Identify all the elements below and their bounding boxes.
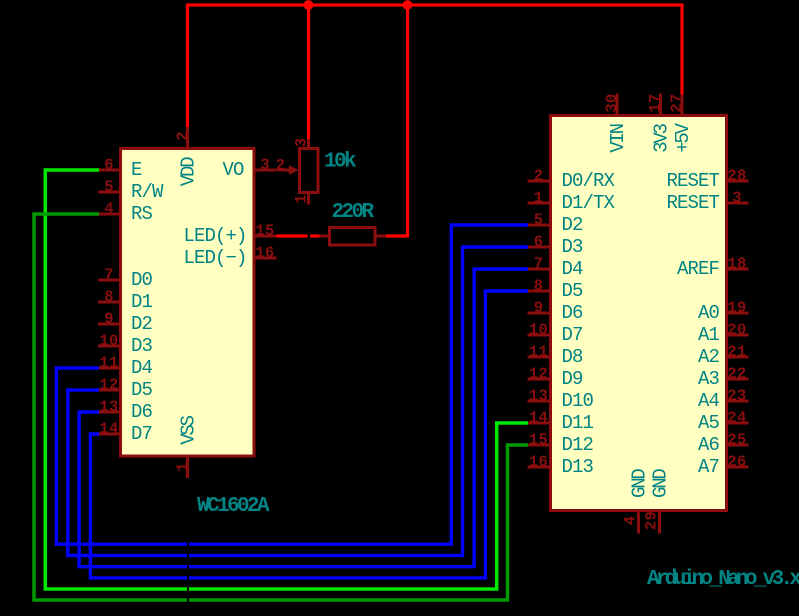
svg-text:D7: D7	[562, 324, 583, 346]
svg-text:1: 1	[293, 194, 311, 204]
svg-text:4: 4	[622, 516, 640, 526]
svg-text:A7: A7	[698, 456, 719, 478]
svg-text:6: 6	[104, 156, 114, 174]
LCD pin 13 D6	[98, 411, 122, 414]
svg-text:15: 15	[529, 431, 548, 449]
svg-text:220R: 220R	[331, 201, 374, 224]
svg-text:Arduino_Nano_v3.x: Arduino_Nano_v3.x	[647, 568, 799, 591]
svg-text:D6: D6	[562, 302, 584, 324]
svg-text:LED(+): LED(+)	[183, 225, 246, 247]
Arduino pin 17 3V3	[659, 94, 662, 117]
wire net LCD_D7 to Arduino_D5 (right run)	[189, 291, 528, 578]
Arduino pin 24 A5	[726, 422, 749, 425]
svg-text:D4: D4	[562, 258, 584, 280]
svg-text:22: 22	[727, 365, 746, 383]
svg-text:14: 14	[529, 409, 548, 427]
Arduino pin 8 D5	[528, 290, 552, 293]
wire segment after gap	[310, 234, 320, 237]
svg-text:4: 4	[104, 200, 114, 218]
svg-text:10: 10	[99, 332, 118, 350]
Arduino Nano U2 body	[551, 116, 727, 511]
svg-text:18: 18	[727, 255, 746, 273]
svg-text:VO: VO	[222, 159, 244, 181]
LCD pin 16 LED(−)	[253, 257, 277, 260]
Arduino pin 28 RESET	[726, 180, 749, 183]
wire LED(+) to R1 left lead	[277, 234, 308, 237]
svg-text:D13: D13	[562, 456, 594, 478]
svg-text:23: 23	[727, 387, 746, 405]
svg-text:D3: D3	[131, 335, 153, 357]
wire net LCD_D7 to Arduino_D5 (left run)	[90, 434, 186, 578]
svg-text:D2: D2	[562, 214, 584, 236]
svg-text:VIN: VIN	[607, 124, 629, 152]
Arduino pin 9 D6	[528, 312, 552, 315]
Arduino pin 26 A7	[726, 466, 749, 469]
svg-text:D0: D0	[131, 269, 153, 291]
svg-text:D12: D12	[562, 434, 594, 456]
svg-text:3: 3	[732, 189, 742, 207]
svg-text:24: 24	[727, 409, 746, 427]
svg-text:D3: D3	[562, 236, 584, 258]
R1 lead right	[374, 235, 385, 238]
Arduino pin 3 RESET	[726, 202, 749, 205]
wire +5V drop to R1 right lead	[386, 5, 408, 236]
svg-text:A3: A3	[698, 368, 720, 390]
LCD pin 9 D2	[98, 323, 122, 326]
R1 lead left	[319, 235, 330, 238]
Arduino pin 5 D2	[528, 224, 552, 227]
Arduino pin 20 A1	[726, 334, 749, 337]
svg-text:2: 2	[174, 131, 192, 141]
svg-text:11: 11	[99, 354, 118, 372]
svg-text:16: 16	[529, 453, 548, 471]
svg-text:29: 29	[643, 511, 661, 530]
Arduino pin 22 A3	[726, 378, 749, 381]
Arduino pin 11 D8	[528, 356, 552, 359]
LCD pin 11 D4	[98, 367, 122, 370]
svg-text:1: 1	[534, 189, 544, 207]
svg-text:3: 3	[260, 156, 270, 174]
junction at RV1 branch	[304, 0, 314, 10]
svg-text:3V3: 3V3	[651, 123, 673, 152]
Arduino pin 13 D10	[528, 400, 552, 403]
wire net LCD_D5 to Arduino_D3 (left run)	[68, 390, 187, 556]
wire net LCD_RS to Arduino_D12 (left run)	[34, 214, 187, 600]
Arduino pin 18 AREF	[726, 268, 749, 271]
wire +5V drop to RV1 pin 3	[307, 5, 310, 139]
svg-text:GND: GND	[650, 469, 672, 498]
svg-text:26: 26	[727, 453, 746, 471]
Arduino pin 12 D9	[528, 378, 552, 381]
RV1 pin 3 (top)	[307, 137, 310, 149]
Arduino pin 27 +5V	[681, 94, 684, 117]
LCD pin 8 D1	[98, 301, 122, 304]
svg-text:RESET: RESET	[666, 170, 719, 192]
LCD pin 5 R/W	[98, 191, 122, 194]
LCD pin 4 RS	[98, 213, 122, 216]
Arduino pin 19 A0	[726, 312, 749, 315]
svg-text:6: 6	[534, 233, 544, 251]
svg-text:7: 7	[104, 266, 114, 284]
wire net LCD_D4 to Arduino_D2 (left run)	[56, 368, 187, 544]
svg-text:28: 28	[727, 167, 746, 185]
svg-text:20: 20	[727, 321, 746, 339]
svg-text:A4: A4	[698, 390, 720, 412]
wire net LCD_D6 to Arduino_D4 (left run)	[79, 412, 187, 567]
svg-text:12: 12	[99, 376, 118, 394]
svg-text:30: 30	[603, 93, 621, 112]
svg-text:D8: D8	[562, 346, 584, 368]
svg-text:8: 8	[104, 288, 114, 306]
Arduino pin 2 D0/RX	[528, 180, 552, 183]
LCD pin 7 D0	[98, 279, 122, 282]
svg-text:D4: D4	[131, 357, 153, 379]
svg-text:A1: A1	[698, 324, 720, 346]
LCD pin 10 D3	[98, 345, 122, 348]
LCD pin 6 E	[98, 169, 122, 172]
svg-text:10: 10	[529, 321, 548, 339]
svg-text:8: 8	[534, 277, 544, 295]
svg-text:7: 7	[534, 255, 544, 273]
svg-text:A0: A0	[698, 302, 720, 324]
svg-text:D5: D5	[562, 280, 584, 302]
svg-text:A6: A6	[698, 434, 720, 456]
Arduino pin 25 A6	[726, 444, 749, 447]
LCD pin 14 D7	[98, 433, 122, 436]
LCD pin 2 VDD	[186, 126, 189, 149]
svg-text:12: 12	[529, 365, 548, 383]
resistor R1 body	[330, 228, 376, 246]
svg-text:11: 11	[529, 343, 548, 361]
svg-text:D9: D9	[562, 368, 584, 390]
svg-text:5: 5	[104, 178, 114, 196]
svg-text:WC1602A: WC1602A	[197, 495, 270, 518]
potentiometer RV1 body	[300, 149, 319, 193]
svg-text:D7: D7	[131, 423, 152, 445]
svg-text:RS: RS	[131, 203, 153, 225]
Arduino pin 6 D3	[528, 246, 552, 249]
svg-text:3: 3	[293, 138, 311, 148]
svg-text:17: 17	[647, 93, 665, 112]
svg-text:VSS: VSS	[178, 415, 200, 444]
LCD pin 12 D5	[98, 389, 122, 392]
svg-text:D11: D11	[562, 412, 594, 434]
LCD pin 1 VSS	[186, 455, 189, 478]
Arduino pin 7 D4	[528, 268, 552, 271]
svg-text:16: 16	[255, 244, 274, 262]
svg-text:21: 21	[727, 343, 746, 361]
svg-text:D5: D5	[131, 379, 153, 401]
svg-text:A5: A5	[698, 412, 720, 434]
Arduino pin 16 D13	[528, 466, 552, 469]
Arduino pin 10 D7	[528, 334, 552, 337]
wire net LCD_E to Arduino_D11 (left run)	[45, 170, 187, 589]
svg-text:13: 13	[529, 387, 548, 405]
svg-text:19: 19	[727, 299, 746, 317]
svg-text:D6: D6	[131, 401, 153, 423]
wire net LCD_D5 to Arduino_D3 (right run)	[189, 247, 528, 556]
svg-text:D1/TX: D1/TX	[562, 192, 616, 214]
svg-text:15: 15	[255, 222, 274, 240]
LCD pin 3 VO	[253, 169, 277, 172]
wire net LCD_E to Arduino_D11 (right run)	[189, 423, 528, 589]
svg-text:AREF: AREF	[677, 258, 720, 280]
svg-text:5: 5	[534, 211, 544, 229]
svg-text:E: E	[131, 159, 142, 181]
svg-text:10k: 10k	[324, 151, 356, 174]
Arduino pin 23 A4	[726, 400, 749, 403]
Arduino pin 1 D1/TX	[528, 202, 552, 205]
svg-text:9: 9	[104, 310, 114, 328]
Arduino pin 15 D12	[528, 444, 552, 447]
svg-text:1: 1	[174, 462, 192, 472]
Arduino pin 14 D11	[528, 422, 552, 425]
Arduino pin 4 GND	[637, 510, 640, 534]
wire net LCD_D4 to Arduino_D2 (right run)	[189, 225, 528, 544]
LCD pin 15 LED(+)	[253, 235, 277, 238]
svg-text:R/W: R/W	[131, 181, 164, 203]
svg-text:A2: A2	[698, 346, 720, 368]
svg-text:25: 25	[727, 431, 746, 449]
Arduino pin 29 GND	[658, 510, 661, 534]
svg-text:D2: D2	[131, 313, 153, 335]
Arduino pin 21 A2	[726, 356, 749, 359]
svg-text:13: 13	[99, 398, 118, 416]
svg-text:2: 2	[276, 156, 286, 174]
svg-text:27: 27	[668, 93, 686, 112]
Arduino pin 30 VIN	[616, 94, 619, 117]
svg-text:GND: GND	[629, 469, 651, 498]
svg-text:2: 2	[534, 167, 544, 185]
wire net LCD_D6 to Arduino_D4 (right run)	[189, 269, 528, 567]
RV1 pin 2 wiper arrow	[277, 169, 290, 172]
svg-text:VDD: VDD	[178, 157, 200, 186]
svg-text:14: 14	[99, 420, 118, 438]
svg-text:RESET: RESET	[666, 192, 719, 214]
RV1 pin 1 (bottom)	[307, 192, 310, 205]
junction at R1 branch	[403, 0, 413, 10]
svg-text:+5V: +5V	[672, 122, 694, 152]
svg-text:D0/RX: D0/RX	[562, 170, 616, 192]
LCD module U1 WC1602A body	[121, 149, 255, 457]
svg-text:9: 9	[534, 299, 544, 317]
svg-text:D10: D10	[562, 390, 594, 412]
wire +5V top rail from LCD VDD to Arduino +5V	[188, 5, 683, 127]
svg-text:LED(−): LED(−)	[183, 247, 246, 269]
wire net LCD_RS to Arduino_D12 (right run)	[189, 445, 528, 600]
svg-text:D1: D1	[131, 291, 153, 313]
